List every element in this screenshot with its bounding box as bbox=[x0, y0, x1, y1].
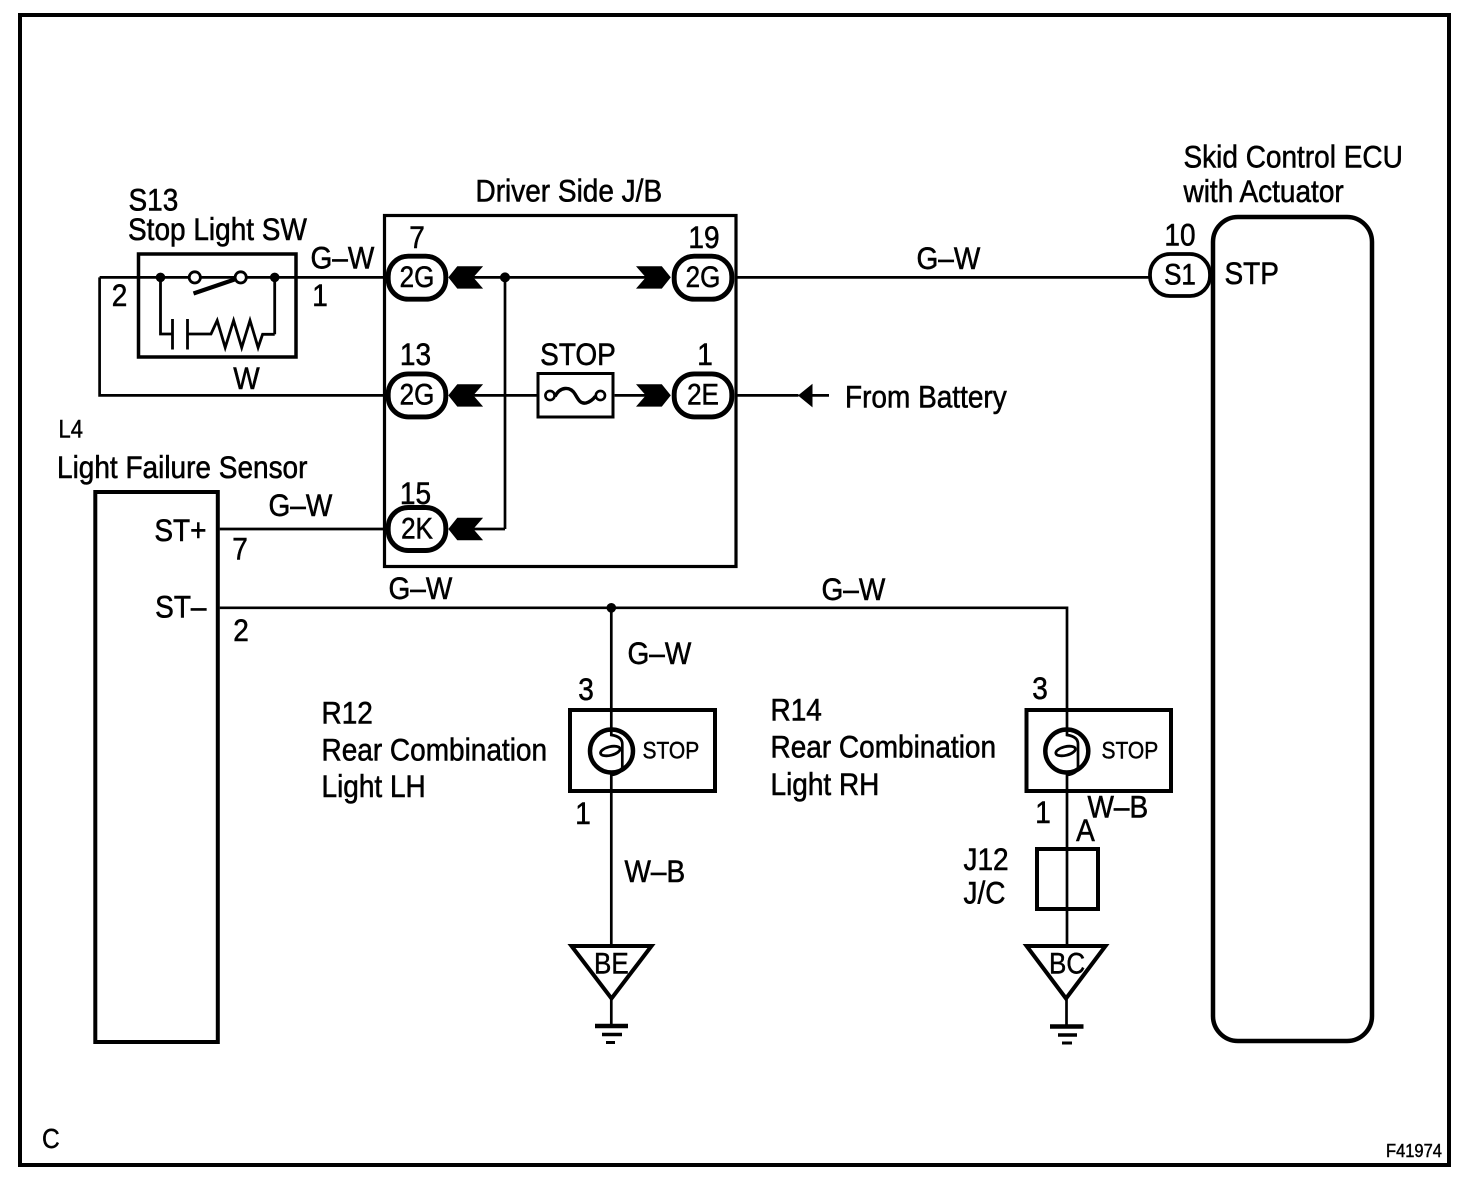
svg-text:J12: J12 bbox=[964, 842, 1009, 877]
svg-text:Light Failure Sensor: Light Failure Sensor bbox=[57, 450, 307, 485]
svg-text:STP: STP bbox=[1225, 256, 1279, 291]
svg-text:G–W: G–W bbox=[822, 572, 887, 607]
svg-text:C: C bbox=[42, 1123, 60, 1155]
svg-text:ST+: ST+ bbox=[154, 513, 206, 548]
svg-text:10: 10 bbox=[1164, 218, 1195, 253]
svg-text:7: 7 bbox=[409, 220, 425, 255]
svg-text:BC: BC bbox=[1049, 947, 1085, 980]
svg-text:with Actuator: with Actuator bbox=[1183, 174, 1344, 209]
svg-text:G–W: G–W bbox=[311, 241, 376, 276]
svg-text:Light LH: Light LH bbox=[322, 769, 426, 804]
svg-text:2: 2 bbox=[233, 613, 249, 648]
svg-text:13: 13 bbox=[400, 337, 431, 372]
svg-text:1: 1 bbox=[575, 796, 591, 831]
svg-text:STOP: STOP bbox=[540, 337, 616, 372]
svg-text:1: 1 bbox=[697, 337, 713, 372]
svg-text:From Battery: From Battery bbox=[845, 380, 1007, 415]
svg-text:G–W: G–W bbox=[389, 571, 454, 606]
svg-text:ST–: ST– bbox=[155, 590, 207, 625]
svg-text:W: W bbox=[233, 361, 260, 396]
svg-text:1: 1 bbox=[312, 278, 328, 313]
svg-text:L4: L4 bbox=[59, 415, 83, 443]
svg-text:Rear Combination: Rear Combination bbox=[771, 730, 997, 765]
svg-text:STOP: STOP bbox=[643, 737, 700, 763]
svg-text:W–B: W–B bbox=[625, 854, 686, 889]
svg-text:G–W: G–W bbox=[917, 241, 982, 276]
svg-text:2: 2 bbox=[112, 278, 128, 313]
svg-text:Driver Side J/B: Driver Side J/B bbox=[476, 174, 663, 209]
svg-text:3: 3 bbox=[1032, 671, 1048, 706]
svg-text:W–B: W–B bbox=[1088, 790, 1149, 825]
svg-text:Stop Light SW: Stop Light SW bbox=[128, 212, 308, 247]
svg-text:BE: BE bbox=[594, 947, 629, 980]
svg-text:19: 19 bbox=[688, 220, 719, 255]
svg-text:2G: 2G bbox=[400, 261, 435, 294]
svg-text:R14: R14 bbox=[771, 693, 822, 728]
svg-text:G–W: G–W bbox=[628, 636, 693, 671]
svg-text:S1: S1 bbox=[1164, 258, 1196, 291]
svg-text:R12: R12 bbox=[322, 696, 373, 731]
svg-text:15: 15 bbox=[400, 476, 431, 511]
svg-text:2G: 2G bbox=[686, 261, 721, 294]
svg-text:Rear Combination: Rear Combination bbox=[322, 733, 548, 768]
svg-text:STOP: STOP bbox=[1102, 737, 1159, 763]
svg-text:2E: 2E bbox=[687, 378, 719, 411]
svg-text:Light RH: Light RH bbox=[771, 767, 880, 802]
svg-text:7: 7 bbox=[232, 532, 248, 567]
svg-text:J/C: J/C bbox=[964, 876, 1006, 911]
svg-text:A: A bbox=[1076, 813, 1095, 848]
svg-text:1: 1 bbox=[1035, 795, 1051, 830]
svg-text:Skid Control ECU: Skid Control ECU bbox=[1184, 140, 1403, 175]
svg-text:2G: 2G bbox=[400, 378, 435, 411]
svg-text:G–W: G–W bbox=[269, 488, 334, 523]
svg-text:F41974: F41974 bbox=[1386, 1140, 1442, 1161]
svg-text:2K: 2K bbox=[401, 512, 433, 545]
svg-text:3: 3 bbox=[578, 672, 594, 707]
